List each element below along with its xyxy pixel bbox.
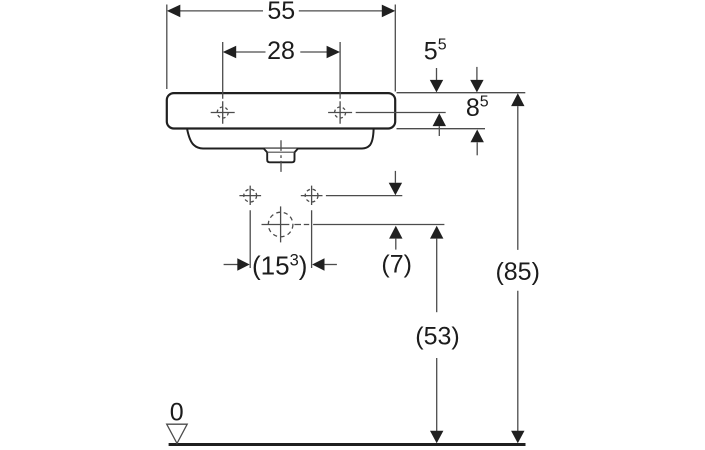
dimension 7: upper arrowhead (down) — [389, 183, 402, 196]
dimension 55: left arrowhead — [167, 5, 180, 18]
dimension 55: dimension line — [179, 10, 383, 12]
dimension 55: right extension line — [394, 5, 396, 92]
siphon axis line extended right — [313, 224, 444, 226]
dimension 7: upper arrow tail — [394, 171, 396, 183]
svg-text:0: 0 — [170, 399, 184, 427]
left tap hole cross line — [211, 112, 235, 114]
left fixing hole cross — [239, 186, 261, 268]
dimension 55: left extension line — [166, 5, 168, 90]
siphon hole (dashed circle) — [268, 212, 293, 237]
left fixing hole (dashed circle) — [244, 189, 257, 202]
left tap hole (dashed circle) — [217, 107, 228, 118]
svg-text:55: 55 — [267, 0, 295, 25]
dimension 55: right arrowhead — [382, 5, 395, 18]
dimension 28: dimension line — [235, 51, 328, 53]
dimension 85: upper arrowhead (up) — [511, 93, 524, 106]
fixing hole axis line extended right — [326, 195, 402, 197]
dimension 15.3: dimension line right tail — [324, 264, 337, 266]
rim top edge line extended right — [397, 92, 526, 94]
right tap hole cross line — [328, 112, 352, 114]
svg-text:(7): (7) — [381, 250, 412, 278]
datum triangle — [167, 424, 188, 443]
dimension 85: vertical line upper segment — [517, 106, 519, 250]
washbasin bowl outline — [187, 129, 373, 148]
dimension 28: right extension/centerline — [339, 42, 341, 124]
right tap hole (dashed circle) — [335, 107, 346, 118]
dimension 5.5: lower arrowhead (up) — [433, 113, 446, 126]
washbasin body outline — [167, 93, 395, 128]
dimension 28: left extension/centerline — [222, 42, 224, 124]
dimension 28: left arrowhead — [223, 46, 236, 59]
drain flange line — [267, 151, 294, 153]
svg-text:(53): (53) — [415, 323, 459, 351]
dimension 8.5: upper arrowhead (down) — [470, 80, 483, 93]
dimension 5.5: upper arrowhead (down) — [430, 80, 443, 93]
dimension 8.5: lower arrowhead (up) — [471, 130, 484, 143]
dimension 53: vertical line lower segment — [436, 358, 438, 431]
dimension 5.5: upper arrow tail — [436, 68, 438, 80]
dimension 15.3: dimension line left tail — [224, 264, 238, 266]
right fixing hole cross — [301, 186, 323, 268]
dimension 53: upper arrowhead (up) — [430, 226, 443, 239]
dimension 85: vertical line lower segment — [517, 291, 519, 431]
tap hole axis line extended right — [356, 112, 446, 114]
right fixing hole (dashed circle) — [305, 189, 318, 202]
dimension 8.5: upper arrow tail — [476, 67, 478, 80]
dimension 15.3: left arrowhead (right-pointing) — [237, 258, 249, 271]
dimension 8.5: lower arrow tail — [476, 142, 478, 155]
dimension 28: right arrowhead — [327, 46, 340, 59]
drain outlet outline — [264, 149, 298, 163]
dimension 53: vertical line upper segment — [436, 239, 438, 313]
svg-text:(85): (85) — [495, 258, 539, 286]
dimension 5.5: lower arrow tail — [438, 126, 440, 136]
svg-text:(153): (153) — [252, 250, 307, 280]
siphon hole vertical centerline — [280, 206, 282, 242]
drain centerline — [280, 140, 282, 172]
siphon hole horizontal centerline — [262, 224, 310, 226]
dimension 53: lower arrowhead (down) — [430, 431, 443, 444]
dimension 15.3: right arrowhead (left-pointing) — [312, 258, 324, 271]
dimension 7: lower arrow tail — [395, 239, 397, 250]
dimension 7: lower arrowhead (up) — [389, 226, 402, 239]
svg-text:28: 28 — [267, 37, 295, 65]
floor line — [169, 443, 526, 446]
rim bottom edge line extended right — [397, 128, 486, 130]
dimension 85: lower arrowhead (down) — [511, 431, 524, 444]
